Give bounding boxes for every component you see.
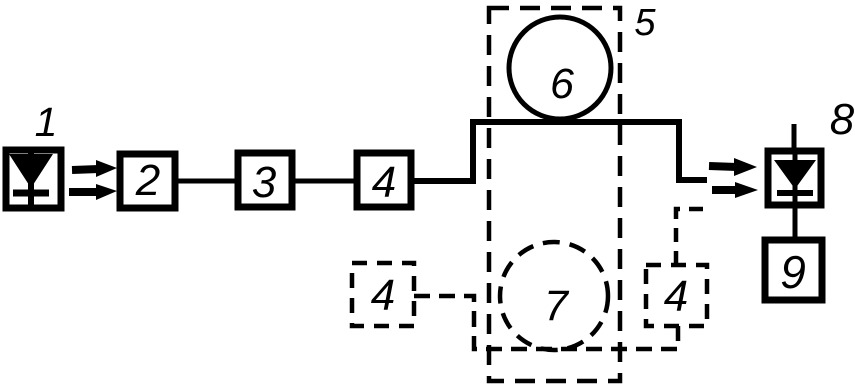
svg-text:4: 4: [371, 271, 395, 320]
box 4 (left, dashed): [352, 263, 414, 326]
disc 7 (dashed): [500, 242, 608, 350]
box 9: [765, 240, 822, 300]
arrow (bottom, from 1 to 2): [69, 184, 117, 200]
svg-text:5: 5: [634, 2, 656, 44]
enclosure 5 (dashed): [489, 8, 620, 381]
photodiode 1: [6, 150, 61, 208]
box 3: [238, 153, 292, 207]
svg-text:4: 4: [664, 272, 688, 321]
svg-text:9: 9: [780, 246, 806, 298]
svg-text:2: 2: [135, 156, 160, 205]
wire (2 to 3): [178, 179, 235, 184]
photodiode 8: [768, 124, 821, 205]
wire (dashed, left 4 under disc 7 to right 4): [414, 296, 678, 349]
wire (4 over modulator to 8): [413, 122, 707, 181]
arrow (bottom, to 8): [712, 182, 758, 198]
wire (3 to 4): [295, 179, 354, 184]
arrow (top, to 8): [709, 158, 757, 176]
svg-text:4: 4: [372, 158, 396, 207]
disc 6: [509, 17, 611, 119]
box 4 (right, dashed): [646, 265, 707, 326]
svg-text:3: 3: [252, 158, 277, 207]
box 4: [357, 153, 411, 207]
svg-text:8: 8: [830, 95, 855, 144]
wire (dashed, right 4 up toward 8): [676, 209, 704, 265]
svg-text:7: 7: [544, 282, 570, 330]
wire (8 to 9): [793, 205, 798, 240]
svg-text:1: 1: [35, 99, 58, 145]
arrow (top, from 1 to 2): [72, 160, 117, 177]
box 2: [120, 154, 175, 208]
svg-text:6: 6: [550, 60, 574, 108]
